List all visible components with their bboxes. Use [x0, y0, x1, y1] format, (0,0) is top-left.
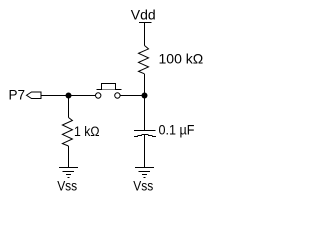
svg-text:P7: P7	[9, 88, 26, 103]
wire switch S1 to node A	[120, 95, 144, 97]
ground symbol Vss right	[135, 168, 154, 178]
svg-text:Vdd: Vdd	[131, 7, 156, 23]
wire node B to resistor R2	[68, 96, 70, 118]
capacitor C1	[134, 131, 156, 137]
junction node B	[66, 93, 72, 99]
pushbutton switch S1	[96, 84, 122, 99]
svg-text:0.1 µF: 0.1 µF	[159, 122, 195, 137]
resistor R2 1 kOhm	[62, 118, 72, 147]
svg-text:Vss: Vss	[133, 179, 153, 194]
junction node A	[142, 93, 148, 99]
wire resistor R1 to node A	[144, 74, 146, 96]
svg-text:1 kΩ: 1 kΩ	[74, 124, 100, 139]
wire resistor R2 to left ground	[68, 146, 70, 168]
ground symbol Vss left	[59, 168, 78, 178]
wire P7 to node B	[41, 95, 95, 97]
wire capacitor C1 to right ground	[144, 135, 146, 168]
pin connector P7	[27, 92, 42, 99]
wire Vdd rail to resistor R1	[144, 23, 146, 46]
wire node A to capacitor C1	[144, 96, 146, 131]
power symbol Vdd	[139, 22, 152, 24]
svg-text:Vss: Vss	[57, 179, 77, 194]
resistor R1 100 kOhm	[139, 46, 149, 74]
svg-text:100 kΩ: 100 kΩ	[159, 51, 204, 67]
